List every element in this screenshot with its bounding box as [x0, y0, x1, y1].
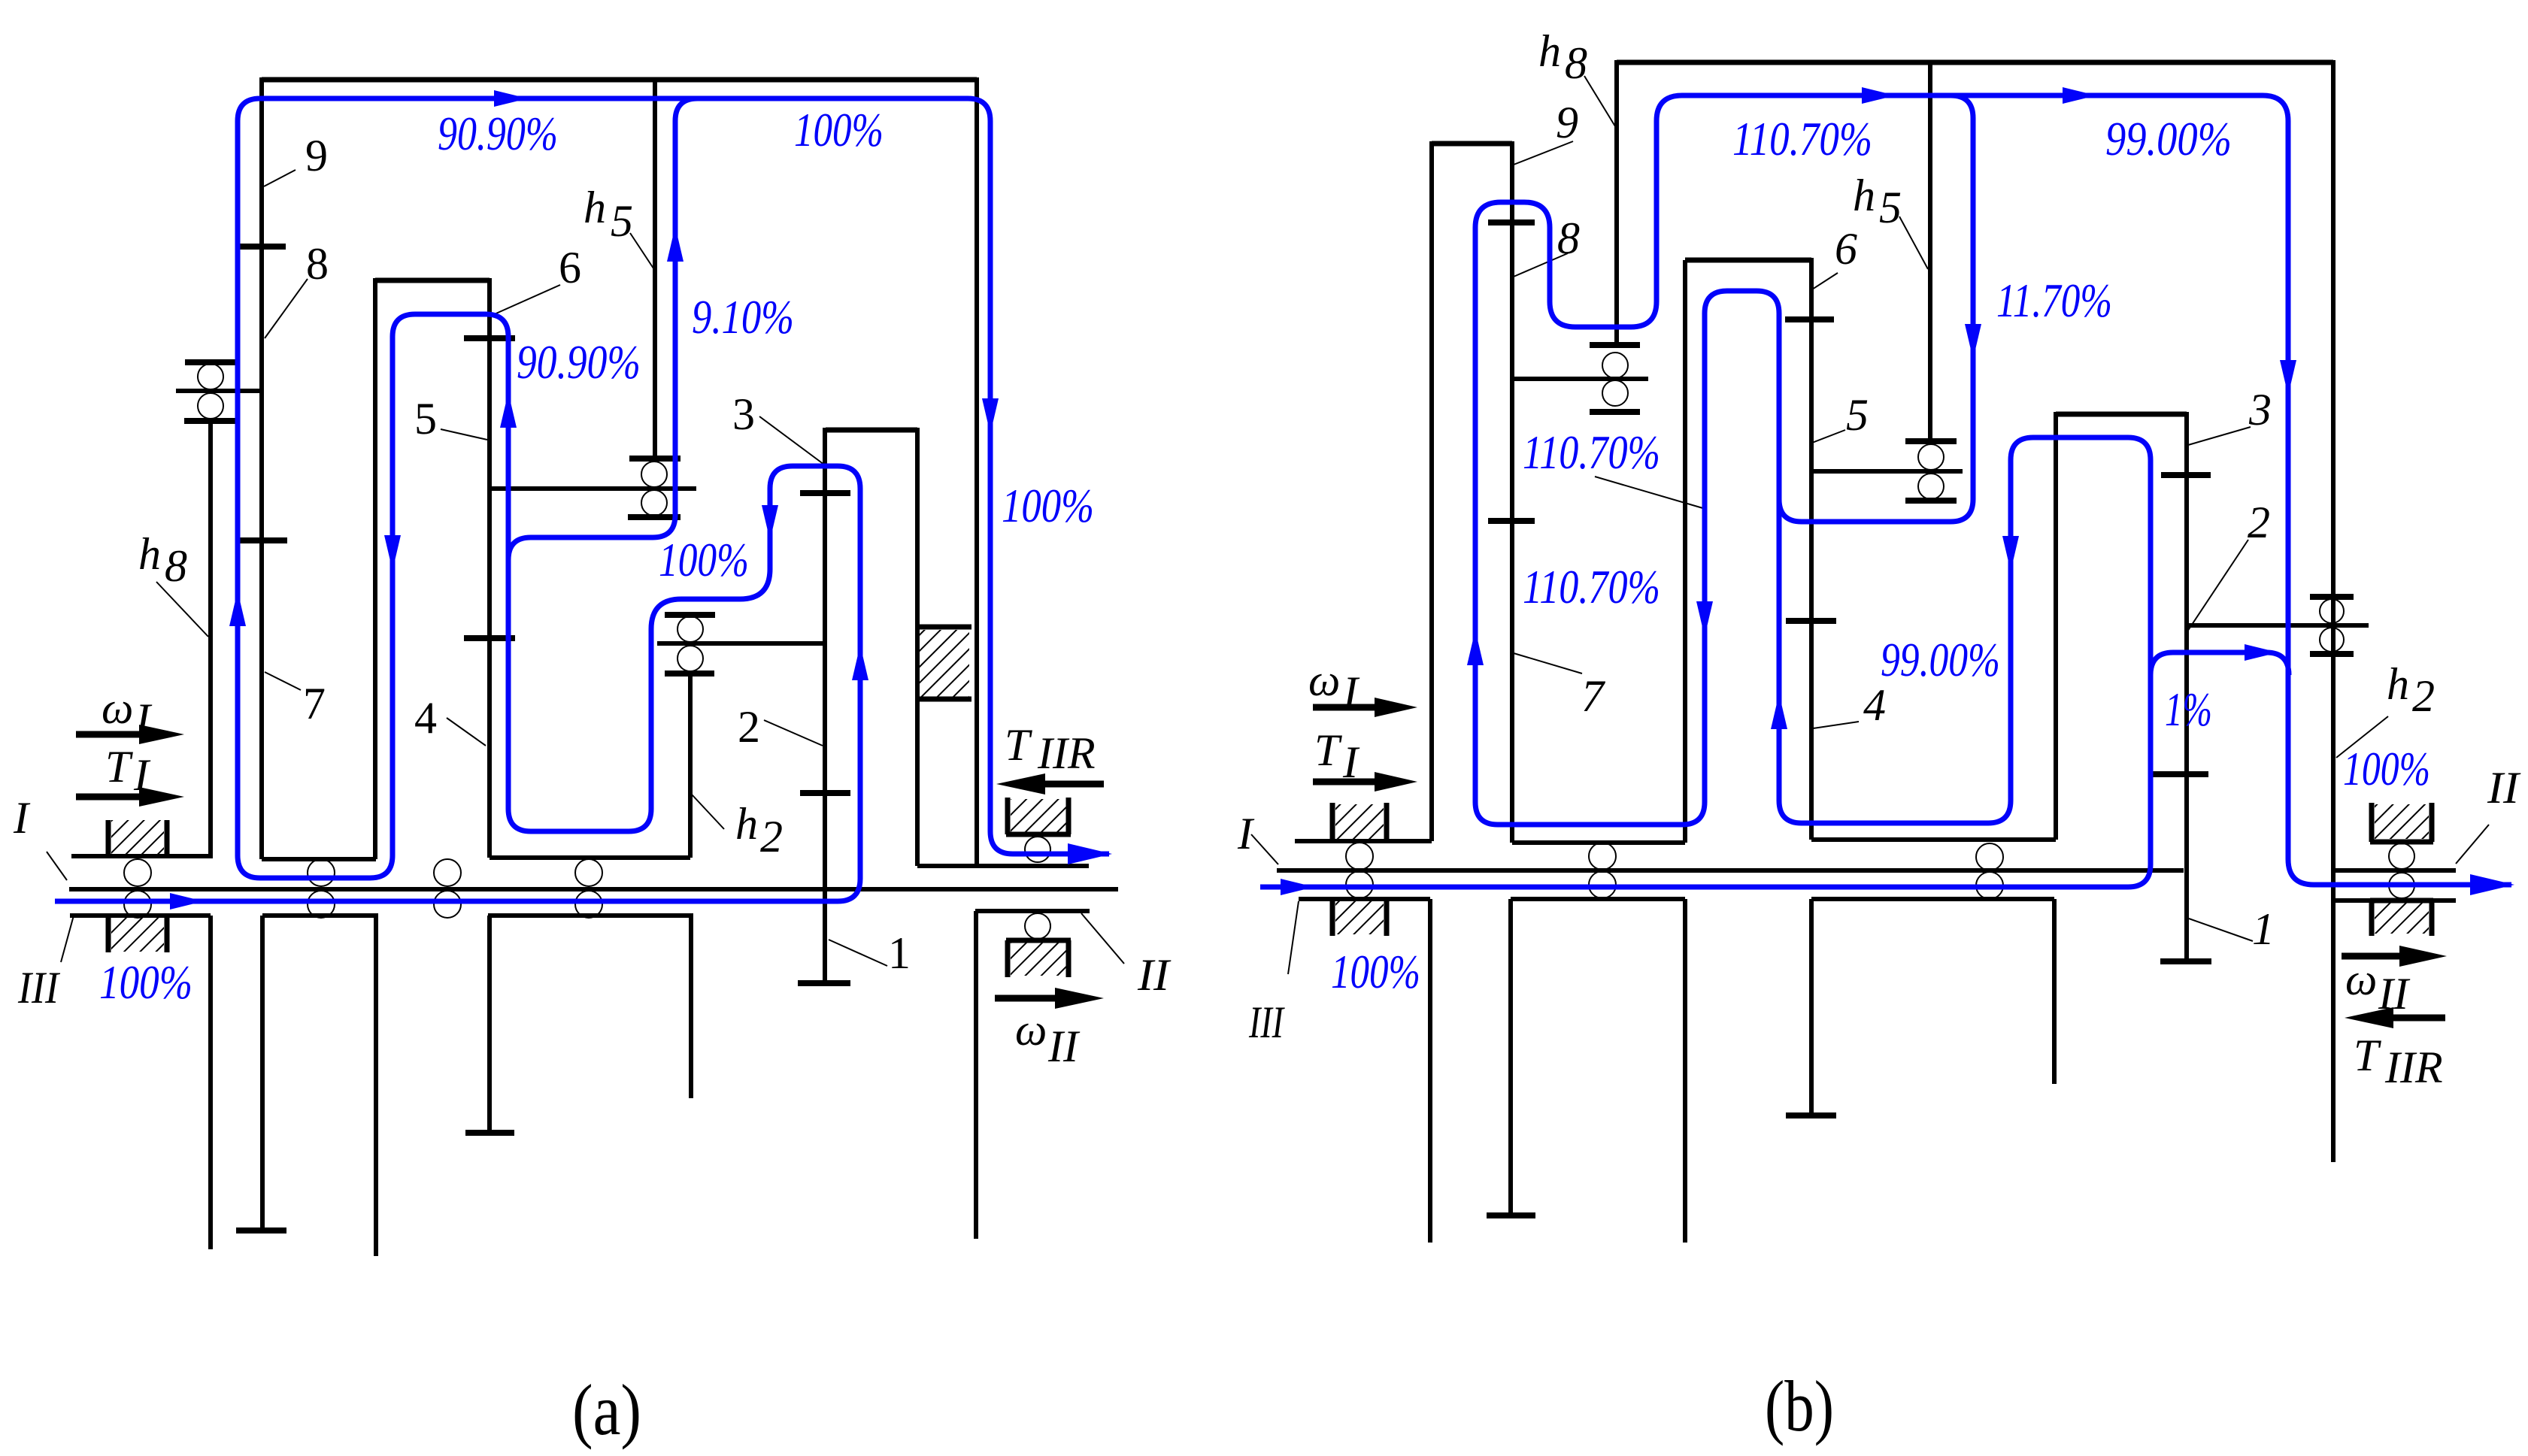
power flow main path (b) — [1260, 95, 2511, 887]
power flow branch 1% (b) — [2151, 652, 2289, 675]
flow arrow down x522 — [384, 535, 401, 571]
below-shaft horizontal gear7 — [262, 913, 376, 918]
svg-text:100%: 100% — [2343, 742, 2430, 795]
below-shaft horizontal left (b) — [1511, 897, 1685, 901]
tick below gear 5 (b) — [1786, 1112, 1836, 1118]
svg-text:99.00%: 99.00% — [2105, 112, 2232, 165]
tick mesh 6-5 — [464, 335, 515, 341]
svg-text:2: 2 — [738, 702, 760, 752]
bearing h8 top tick (b) — [1590, 342, 1640, 348]
leader 9 (b) — [1514, 141, 1573, 165]
svg-text:h: h — [1853, 171, 1875, 220]
carrier h2 arm (b) — [2187, 623, 2369, 628]
torque arrow T_IIR (b) — [2391, 1015, 2445, 1022]
carrier h5 arm (b) — [1811, 469, 1963, 474]
svg-text:5: 5 — [414, 394, 437, 443]
leader 4 — [447, 718, 486, 746]
bearing h2 bottom tick (b) — [2310, 651, 2354, 657]
flow arrow down x3043 (b) — [2280, 360, 2296, 395]
shaft bearing circles x=2131 (b) — [1589, 843, 1616, 870]
gear 3 right edge — [915, 428, 920, 866]
bearing h8 bottom tick (b) — [1590, 409, 1640, 415]
bearing h8 bottom tick — [184, 418, 236, 424]
bearing h8 circle 2 (b) — [1602, 380, 1628, 406]
leader 3 — [759, 416, 824, 465]
tick mesh 7 on x=348 — [239, 537, 287, 543]
leader 4 (b) — [1813, 722, 1859, 728]
svg-text:h: h — [138, 529, 161, 579]
bearing h8 circle 1 (b) — [1602, 353, 1628, 378]
output II lower hatch box — [1006, 940, 1071, 977]
shaft bearing circles x=183 — [124, 859, 151, 886]
leader h2 (b) — [2336, 716, 2388, 758]
main shaft I (a) — [69, 887, 1118, 891]
bearing h5 circle 2 (b) — [1918, 474, 1944, 499]
leader I (b) — [1251, 834, 1278, 864]
output shaft II stub (b) — [2332, 868, 2456, 873]
svg-text:I: I — [13, 793, 31, 843]
svg-text:II: II — [2378, 969, 2411, 1019]
flow arrow up x898 — [667, 226, 684, 262]
leader 7 (b) — [1514, 653, 1582, 674]
leader 2 — [764, 720, 823, 746]
svg-text:4: 4 — [1863, 680, 1886, 730]
output II upper hatch box (b) — [2370, 803, 2433, 842]
gear 9 left edge (b) — [1429, 141, 1434, 841]
leader I (a) — [47, 852, 67, 880]
leader 110.70% mid (b) — [1595, 477, 1705, 509]
tick below gear 7 — [236, 1227, 286, 1234]
svg-text:110.70%: 110.70% — [1523, 560, 1660, 613]
output II lower stub (b) — [2333, 898, 2456, 903]
speed arrow omega_II (b) — [2342, 953, 2402, 960]
support III upper hatch box (b) — [1332, 803, 1387, 841]
leader 6 — [491, 285, 560, 316]
svg-text:IIR: IIR — [2384, 1043, 2443, 1092]
frame right vertical (b) — [2331, 60, 2336, 1162]
support III top horizontal (b) — [1295, 839, 1432, 843]
shaft bearing circles x=783 — [575, 859, 602, 886]
flow arrow output (b) — [2470, 874, 2514, 895]
gear 5-6-4 line — [487, 278, 492, 858]
gear 3 box top (b) — [2056, 412, 2187, 417]
below-shaft gear 5-4 line — [487, 916, 492, 1133]
svg-text:11.70%: 11.70% — [1996, 274, 2112, 327]
shaft bearing circles x=427 — [308, 859, 335, 886]
svg-text:ω: ω — [1015, 1005, 1047, 1055]
svg-text:III: III — [1248, 997, 1285, 1047]
svg-text:h: h — [735, 799, 758, 849]
leader h2 — [692, 795, 724, 829]
gear 9 bottom horizontal (b) — [1297, 839, 1432, 843]
leader h5 (b) — [1899, 216, 1928, 269]
tick mesh 6-5 (b) — [1785, 316, 1834, 322]
bearing h5 bottom tick — [628, 514, 680, 520]
gear 3-2-1 line (b) — [2184, 412, 2189, 961]
wire: frame right vertical — [975, 77, 979, 866]
frame top (b) — [1617, 60, 2333, 65]
bearing h5 top tick (b) — [1905, 438, 1957, 444]
below-shaft horizontal gear4 — [488, 913, 691, 918]
svg-text:T: T — [2354, 1031, 2381, 1080]
torque arrow T_IIR (a) — [1041, 781, 1104, 788]
output II lower bearing circle — [1025, 913, 1050, 939]
power flow branch 9.10% (a) — [508, 98, 698, 560]
svg-text:100%: 100% — [99, 955, 192, 1009]
svg-text:100%: 100% — [659, 533, 749, 586]
wire: bottom horizontal frame to gear6 — [262, 857, 376, 861]
svg-text:II: II — [2487, 763, 2521, 813]
output II lower bearing circle (b) — [2389, 873, 2414, 898]
leader 8 — [265, 279, 308, 338]
speed arrow omega_I (a) — [76, 731, 147, 738]
svg-text:100%: 100% — [794, 103, 884, 156]
gear 3 box top — [826, 428, 917, 433]
svg-text:T: T — [1314, 725, 1342, 775]
flow arrow down x2267 (b) — [1696, 601, 1713, 637]
flow arrow down x2674 (b) — [2002, 536, 2019, 571]
svg-text:II: II — [1047, 1022, 1081, 1071]
svg-text:I: I — [135, 695, 153, 744]
svg-text:I: I — [133, 750, 151, 800]
below-shaft gear 6-7 right line (b) — [1683, 899, 1687, 1243]
svg-text:II: II — [1137, 950, 1172, 1000]
carrier h2 bearing circle 2 — [677, 646, 703, 671]
output II upper stub — [917, 864, 1089, 868]
support III lower horizontal (b) — [1299, 897, 1430, 901]
svg-text:90.90%: 90.90% — [517, 335, 641, 389]
gear 6 left edge — [373, 278, 377, 859]
bearing h2 circle 1 (b) — [2320, 599, 2344, 623]
svg-text:I: I — [1342, 667, 1360, 717]
bearing h8 circle 1 — [198, 364, 223, 389]
support III top horizontal — [71, 854, 213, 858]
gear 9 box top (b) — [1432, 141, 1512, 147]
carrier h5 arm — [490, 486, 696, 491]
shaft bearing circles x=2646 (b) — [1976, 843, 2003, 870]
bearing h8 top tick — [185, 359, 235, 365]
svg-text:1: 1 — [2252, 904, 2275, 954]
carrier h8 arm (b) — [1512, 377, 1648, 381]
output II lower hatch box (b) — [2370, 901, 2433, 936]
shaft bearing circles x=1808 (b) — [1346, 843, 1373, 870]
output II upper bearing circle (b) — [2389, 843, 2414, 869]
svg-text:90.90%: 90.90% — [438, 107, 558, 160]
svg-text:9: 9 — [305, 131, 328, 180]
flow arrow up x316 — [229, 591, 246, 626]
leader 1 (b) — [2189, 919, 2253, 941]
leader III (a) — [61, 916, 74, 962]
ring gear 3 ground anchor stubs — [919, 627, 971, 699]
gear 9-8-7 line (b) — [1510, 141, 1514, 843]
flow arrow top line (a) — [494, 90, 528, 107]
output II upper bearing circle — [1025, 837, 1050, 862]
gear 3 left edge (b) — [2054, 412, 2058, 840]
svg-text:5: 5 — [1879, 183, 1902, 232]
leader 1 — [829, 940, 887, 966]
svg-text:5: 5 — [611, 196, 633, 246]
output II lower stub — [975, 909, 1090, 913]
svg-text:I: I — [1237, 809, 1255, 858]
svg-text:IIR: IIR — [1037, 728, 1096, 778]
leader 2 (b) — [2187, 540, 2248, 631]
svg-text:7: 7 — [1581, 671, 1606, 721]
shaft bearing circles x=595 — [434, 859, 461, 886]
svg-text:110.70%: 110.70% — [1732, 112, 1872, 165]
svg-text:ω: ω — [102, 683, 133, 733]
support III lower hatch box (b) — [1332, 899, 1387, 936]
shaft h5 vertical (b) — [1928, 60, 1932, 441]
bearing h5 circle 2 — [641, 490, 667, 516]
svg-text:7: 7 — [303, 679, 326, 728]
flow arrow input (a) — [170, 893, 204, 910]
tick mesh 9-8 on x=348 — [240, 244, 286, 250]
tick mesh 9-8 (b) — [1488, 219, 1535, 226]
carrier h2 bottom (b) — [1811, 837, 2056, 842]
svg-text:T: T — [1005, 720, 1032, 770]
below-shaft gear 9 line (b) — [1428, 899, 1432, 1243]
tick mesh 3-2 — [800, 490, 850, 496]
gear 2-1 line — [823, 428, 827, 983]
leader 9 — [264, 170, 296, 186]
tick mesh 7 (b) — [1488, 518, 1535, 524]
svg-text:(a): (a) — [572, 1370, 641, 1450]
svg-text:h: h — [2387, 659, 2409, 709]
main shaft I (b) — [1277, 868, 2184, 873]
gear 5-4 line (b) — [1809, 258, 1814, 840]
leader 5 — [441, 429, 487, 440]
svg-text:8: 8 — [1565, 38, 1587, 88]
carrier h2 bearing arm — [657, 641, 823, 646]
shaft h5 vertical — [653, 80, 657, 459]
flow arrow down x2624 (b) — [1965, 324, 1981, 359]
carrier h8 shaft vertical (b) — [1614, 60, 1619, 345]
carrier h2 bearing bottom tick — [665, 670, 714, 677]
svg-text:III: III — [17, 963, 61, 1013]
below-shaft gear 7 line — [260, 916, 265, 1230]
svg-text:100%: 100% — [1002, 479, 1094, 532]
svg-text:99.00%: 99.00% — [1881, 633, 2000, 686]
flow arrow top 1 (b) — [1862, 87, 1896, 104]
frame lower vertical right — [974, 911, 978, 1239]
svg-text:(b): (b) — [1765, 1366, 1834, 1446]
bearing h2 circle 2 (b) — [2320, 628, 2344, 652]
tick mesh 2 lower (b) — [2151, 771, 2208, 777]
tick mesh 4 — [464, 635, 515, 641]
below-shaft horizontal right (b) — [1811, 897, 2054, 901]
leader h8 — [156, 582, 208, 637]
svg-text:100%: 100% — [1331, 945, 1420, 998]
leader h5 — [630, 233, 655, 271]
flow arrow up x2366 (b) — [1771, 694, 1787, 729]
svg-text:h: h — [1538, 26, 1561, 76]
leader 3 (b) — [2188, 427, 2251, 445]
bearing h2 top tick (b) — [2310, 594, 2354, 600]
svg-text:T: T — [105, 742, 133, 792]
power flow main path (a) — [55, 98, 1109, 901]
svg-text:1: 1 — [888, 928, 911, 978]
carrier h2 bottom — [490, 855, 690, 860]
gear 6 box top (b) — [1685, 258, 1811, 263]
support III lower horizontal — [70, 913, 211, 918]
svg-text:2: 2 — [2248, 498, 2270, 547]
speed arrow omega_II (a) — [995, 995, 1055, 1002]
leader III (b) — [1288, 901, 1299, 974]
tick gear 1 bottom (b) — [2160, 958, 2211, 964]
svg-text:5: 5 — [1846, 390, 1869, 440]
tick mesh 2 lower — [800, 790, 850, 796]
svg-text:9.10%: 9.10% — [692, 290, 794, 344]
gear 6-7 right edge (b) — [1683, 260, 1687, 843]
leader h8 (b) — [1584, 76, 1615, 126]
svg-text:3: 3 — [732, 389, 755, 439]
frame top (ring gear 9 housing) — [262, 77, 977, 83]
bearing h5 circle 1 — [641, 462, 667, 487]
bearing h5 bottom tick (b) — [1905, 498, 1957, 504]
flow arrow up x1962 (b) — [1467, 630, 1484, 665]
svg-text:6: 6 — [559, 243, 581, 292]
tick gear 1 bottom — [798, 980, 850, 986]
tick mesh 3-2 (b) — [2161, 472, 2211, 478]
bearing h5 top tick — [629, 456, 680, 462]
below-shaft gear 8-7 line (b) — [1508, 899, 1513, 1215]
ring gear 3 ground anchor hatch — [920, 630, 969, 697]
leader 7 — [265, 672, 301, 690]
wire: frame left vertical (gears 9-8-7 line) — [259, 77, 264, 859]
tick below gear 5 — [465, 1130, 514, 1136]
bearing h8 circle 2 — [198, 393, 223, 419]
gear 8 shaft vertical — [208, 421, 213, 856]
speed arrow omega_I (b) — [1313, 704, 1382, 711]
carrier h2 bearing circle 1 — [677, 616, 703, 642]
tick mesh 4 (b) — [1786, 618, 1836, 624]
below-shaft gear 5-4 line (b) — [1809, 899, 1814, 1115]
below-shaft gear 8 rim — [208, 916, 213, 1249]
carrier h2 bearing top tick — [665, 612, 715, 618]
leader 6 (b) — [1812, 273, 1838, 289]
torque arrow T_I (b) — [1313, 779, 1382, 786]
support III upper hatch box — [108, 820, 167, 856]
flow arrow input (b) — [1281, 879, 1314, 895]
svg-text:h: h — [584, 183, 606, 232]
svg-text:8: 8 — [306, 239, 329, 289]
svg-text:9: 9 — [1556, 98, 1578, 147]
flow arrow output (a) — [1068, 843, 1112, 864]
output II upper hatch box — [1006, 798, 1071, 834]
below-shaft carrier h2 line — [689, 913, 693, 1098]
svg-text:ω: ω — [1308, 655, 1340, 705]
svg-text:4: 4 — [414, 693, 437, 743]
leader 5 (b) — [1812, 430, 1845, 443]
gear 6 box top — [375, 278, 490, 283]
svg-text:ω: ω — [2345, 955, 2377, 1004]
leader II (a) — [1081, 913, 1124, 964]
carrier h2 right vertical — [688, 674, 693, 858]
svg-text:3: 3 — [2248, 385, 2272, 434]
svg-text:8: 8 — [165, 541, 187, 591]
svg-text:6: 6 — [1835, 224, 1857, 274]
bearing h5 circle 1 (b) — [1918, 444, 1944, 470]
svg-text:2: 2 — [2412, 671, 2435, 721]
flow arrow down x1024 — [762, 505, 778, 540]
svg-text:110.70%: 110.70% — [1523, 425, 1660, 479]
flow arrow up x676 — [500, 392, 517, 428]
support III lower hatch box — [108, 916, 167, 952]
svg-text:1%: 1% — [2165, 683, 2212, 736]
flow arrow 1% (b) — [2245, 644, 2278, 661]
bearing h8 mid arm — [176, 389, 260, 393]
leader II (b) — [2456, 825, 2489, 864]
svg-text:I: I — [1342, 737, 1360, 787]
leader 8 (b) — [1514, 253, 1568, 277]
power flow branch 11.70% (b) — [1779, 95, 1973, 522]
tick below gear 8 (b) — [1487, 1212, 1535, 1218]
svg-text:8: 8 — [1557, 213, 1580, 263]
flow arrow top 2 (b) — [2063, 87, 2096, 104]
svg-text:2: 2 — [760, 812, 783, 861]
flow arrow up x1144 — [852, 645, 868, 680]
gear 7 bottom horizontal (b) — [1512, 840, 1685, 845]
below-shaft gear 3 line (b) — [2052, 899, 2057, 1084]
torque arrow T_I (a) — [76, 794, 147, 801]
flow arrow down x1317 — [982, 398, 999, 434]
below-shaft gear 6 line — [374, 913, 378, 1256]
